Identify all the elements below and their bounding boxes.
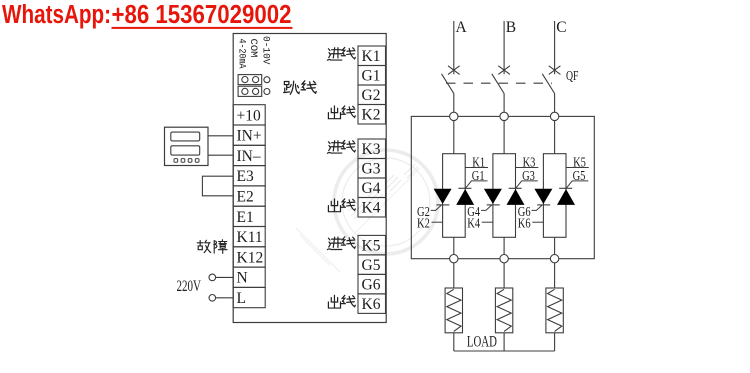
- svg-text:K6: K6: [518, 215, 531, 230]
- SCR module 5 body: [543, 121, 566, 255]
- svg-text:COM: COM: [247, 39, 258, 58]
- svg-text:C: C: [556, 19, 566, 36]
- svg-text:E3: E3: [237, 168, 254, 185]
- svg-text:K2: K2: [362, 107, 381, 124]
- label 进线 (in) group2: [327, 140, 355, 153]
- wire meter to IN-: [208, 154, 233, 156]
- svg-text:G2: G2: [362, 87, 381, 104]
- title: WhatsApp contact (red): [2, 1, 292, 29]
- terminal G3: [358, 159, 386, 179]
- svg-text:+86 15367029002: +86 15367029002: [112, 1, 292, 29]
- jumper block J2: [238, 86, 262, 96]
- wire module 5 to bottom junction: [554, 237, 556, 254]
- SCR module 1 body: [443, 121, 466, 255]
- thyristor K1/G1 (up) and K2/G2 (down) pair: [434, 188, 475, 205]
- svg-text:0-10V: 0-10V: [259, 36, 270, 65]
- terminal E2: [233, 186, 265, 206]
- wire junction to load resistor R3: [554, 263, 556, 288]
- terminal G6: [358, 274, 386, 294]
- label 跳线 (jumper): [284, 81, 317, 94]
- wire junction to load resistor R1: [453, 263, 455, 288]
- svg-text:K2: K2: [417, 215, 430, 230]
- svg-text:QF: QF: [566, 69, 579, 84]
- terminal N: [233, 267, 265, 287]
- left terminal strip: boxes: [233, 105, 265, 308]
- junction circle top B: [500, 112, 508, 120]
- watermark stamp: [296, 150, 438, 272]
- svg-text:K5: K5: [362, 238, 381, 255]
- right terminal strip group 1 boxes: [358, 46, 386, 313]
- terminal IN+: [233, 125, 265, 145]
- wire blade to bus (C): [554, 94, 556, 113]
- phase B incoming wire: [503, 21, 505, 74]
- label 出线 (out) group2: [328, 199, 355, 212]
- svg-text:220V: 220V: [177, 278, 202, 295]
- breaker blade (A): [442, 74, 454, 94]
- svg-text:IN+: IN+: [237, 128, 262, 145]
- breaker blade (B): [492, 74, 504, 94]
- terminal E1: [233, 206, 265, 226]
- right terminal labels: [362, 48, 381, 313]
- svg-text:K1: K1: [362, 48, 381, 65]
- jumper pin P1: [264, 77, 270, 83]
- terminal K2: [358, 105, 386, 125]
- svg-text:K6: K6: [362, 296, 381, 313]
- terminal K6: [358, 294, 386, 314]
- jumper wire E3-E2: [202, 176, 233, 196]
- svg-text:+10: +10: [237, 107, 261, 124]
- svg-text:4-20mA: 4-20mA: [236, 39, 247, 69]
- terminal K4: [358, 198, 386, 218]
- load bus wire: [454, 350, 555, 352]
- svg-text:K4: K4: [467, 215, 480, 230]
- label 进线 (in) group3: [327, 237, 355, 250]
- left terminal labels: [237, 107, 264, 307]
- meter window 1: [171, 132, 200, 141]
- svg-text:G3: G3: [362, 161, 381, 178]
- terminal G4: [358, 178, 386, 198]
- breaker blade (C): [542, 74, 554, 94]
- wire blade to bus (B): [503, 94, 505, 113]
- svg-text:K12: K12: [237, 249, 264, 266]
- svg-text:IN–: IN–: [237, 148, 261, 165]
- terminal G2: [358, 85, 386, 105]
- junction circle top C: [550, 112, 558, 120]
- label 进线 (in) group1: [327, 47, 355, 60]
- junction circle bottom B: [500, 255, 508, 263]
- load resistor R1: [445, 288, 462, 333]
- wire module 3 to bottom junction: [503, 237, 505, 254]
- junction circle bottom C: [550, 255, 558, 263]
- junction circle top A: [450, 112, 458, 120]
- breaker contact x (A): [448, 66, 460, 75]
- svg-text:L: L: [237, 290, 246, 307]
- phase C incoming wire: [554, 21, 556, 74]
- wire resistor R3 to load bus: [554, 333, 556, 351]
- meter window 2: [171, 146, 200, 155]
- svg-text:E1: E1: [237, 209, 254, 226]
- terminal circle N: [209, 274, 216, 281]
- title underline: [112, 27, 293, 29]
- wire resistor R1 to load bus: [453, 333, 455, 351]
- terminal IN-: [233, 145, 265, 165]
- wire resistor R2 to load bus: [503, 333, 505, 351]
- breaker linkage (dashed): [446, 82, 552, 84]
- svg-text:K4: K4: [362, 200, 381, 217]
- wire bus to module 5: [554, 121, 556, 154]
- terminal K5: [358, 235, 386, 255]
- terminal E3: [233, 166, 265, 186]
- svg-text:LOAD: LOAD: [467, 334, 497, 351]
- terminal +10: [233, 105, 265, 125]
- svg-text:WhatsApp:: WhatsApp:: [2, 1, 111, 29]
- wire blade to bus (A): [453, 94, 455, 113]
- SCR module enclosure: [411, 116, 594, 258]
- terminal K1: [358, 46, 386, 66]
- svg-text:B: B: [506, 19, 516, 36]
- terminal K3: [358, 139, 386, 159]
- svg-text:G4: G4: [362, 180, 381, 197]
- breaker contact x (C): [549, 66, 561, 75]
- svg-text:A: A: [456, 19, 468, 36]
- svg-text:G5: G5: [362, 257, 381, 274]
- jumper pin P2: [264, 89, 270, 95]
- thyristor K5/G5 (up) and K6/G6 (down) pair: [534, 188, 575, 205]
- terminal L: [233, 287, 265, 307]
- meter buttons: [174, 159, 199, 163]
- load resistor R2: [495, 288, 512, 333]
- label 出线 (out) group3: [328, 295, 355, 308]
- terminal G5: [358, 255, 386, 275]
- svg-text:K3: K3: [362, 141, 381, 158]
- terminal K11: [233, 227, 265, 247]
- jumper block J1: [238, 75, 262, 85]
- svg-text:G1: G1: [362, 68, 381, 85]
- terminal G1: [358, 66, 386, 86]
- thyristor K3/G3 (up) and K4/G4 (down) pair: [484, 188, 525, 205]
- wire N: [216, 276, 234, 278]
- wire bus to module 1: [453, 121, 455, 154]
- terminal circle L: [209, 295, 216, 302]
- terminal K12: [233, 247, 265, 267]
- controller box U1: [233, 34, 386, 323]
- wire L: [216, 297, 234, 299]
- label 故障 (fault): [197, 240, 227, 254]
- svg-text:K11: K11: [237, 229, 263, 246]
- wire junction to load resistor R2: [503, 263, 505, 288]
- breaker contact x (B): [498, 66, 510, 75]
- display meter P1 body: [165, 127, 209, 165]
- wire module 1 to bottom junction: [453, 237, 455, 254]
- phase A incoming wire: [453, 21, 455, 74]
- load resistor R3: [546, 288, 563, 333]
- label 出线 (out) group1: [328, 106, 355, 119]
- wire meter to IN+: [208, 135, 233, 137]
- svg-text:G6: G6: [362, 277, 381, 294]
- wire bus to module 3: [503, 121, 505, 154]
- SCR module 3 body: [493, 121, 516, 255]
- svg-text:N: N: [237, 270, 248, 287]
- junction circle bottom A: [450, 255, 458, 263]
- svg-text:E2: E2: [237, 189, 254, 206]
